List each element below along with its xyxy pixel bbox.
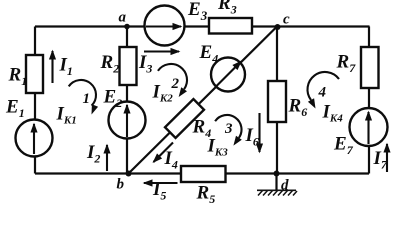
resistor R6 [268, 81, 286, 122]
wire left branch [34, 27, 36, 174]
label E4 [199, 42, 219, 66]
current arrow I4 [154, 143, 178, 172]
svg-text:E1: E1 [5, 97, 25, 121]
loop current IK2 [152, 64, 188, 105]
svg-text:R7: R7 [336, 52, 357, 76]
label R6 [288, 96, 308, 120]
resistor R2 [120, 47, 137, 85]
svg-text:IK2: IK2 [152, 82, 174, 105]
svg-text:R5: R5 [196, 183, 216, 205]
current arrow I1 [53, 51, 73, 83]
node b [117, 171, 132, 193]
loop current IK1 [56, 80, 99, 127]
svg-text:3: 3 [224, 121, 233, 137]
svg-text:IK4: IK4 [322, 102, 344, 125]
node a [119, 10, 130, 30]
label R2 [100, 52, 120, 76]
node d [274, 171, 290, 194]
wire middle branch a-b [126, 27, 128, 175]
svg-text:E4: E4 [199, 42, 219, 66]
wire c-d branch [276, 27, 278, 174]
wire diagonal b-c [128, 27, 277, 175]
svg-text:R1: R1 [8, 65, 28, 89]
wire ground stub [275, 174, 277, 190]
resistor R1 [26, 55, 43, 93]
svg-text:E3: E3 [187, 0, 208, 23]
label E3 [187, 0, 208, 23]
resistor R7 [361, 47, 379, 88]
svg-text:a: a [119, 10, 127, 26]
current arrow I7 [373, 144, 388, 172]
svg-text:R2: R2 [100, 52, 120, 76]
svg-text:I7: I7 [373, 148, 388, 172]
svg-text:R6: R6 [288, 96, 308, 120]
loop current IK4 [308, 72, 344, 125]
svg-text:1: 1 [83, 91, 91, 107]
node c [275, 12, 291, 31]
wire bottom b-d [35, 172, 369, 174]
EMF source E7 [350, 108, 388, 146]
EMF source E2 [109, 102, 146, 139]
current arrow I5 [144, 179, 178, 203]
resistor R3 [209, 18, 252, 34]
label R5 [196, 183, 216, 207]
resistor R4 [165, 99, 204, 138]
label E2 [103, 87, 123, 111]
svg-text:I1: I1 [59, 55, 73, 79]
current arrow I2 [86, 142, 107, 171]
EMF source E4 [211, 58, 245, 92]
svg-text:c: c [283, 12, 290, 28]
svg-text:b: b [117, 177, 125, 193]
svg-text:4: 4 [318, 85, 327, 101]
EMF source E1 [16, 120, 53, 157]
svg-text:I4: I4 [164, 148, 178, 172]
label R4 [192, 117, 212, 141]
svg-text:I2: I2 [86, 142, 100, 166]
label R3 [217, 0, 237, 17]
svg-text:R4: R4 [192, 117, 212, 141]
ground [257, 190, 297, 196]
svg-text:I3: I3 [138, 52, 152, 76]
current arrow I3 [138, 52, 179, 76]
svg-text:R3: R3 [217, 0, 237, 17]
svg-text:IK1: IK1 [56, 104, 77, 127]
EMF source E3 [145, 6, 185, 46]
svg-text:2: 2 [171, 76, 180, 92]
current arrow I6 [245, 113, 260, 152]
wire right branch [368, 27, 370, 174]
svg-text:I6: I6 [245, 125, 259, 149]
resistor R5 [181, 166, 226, 182]
label R1 [8, 65, 28, 89]
wire top a-c [35, 25, 370, 27]
label E7 [333, 134, 354, 158]
label E1 [5, 97, 25, 121]
loop current IK3 [207, 115, 242, 159]
label R7 [336, 52, 357, 76]
svg-text:E2: E2 [103, 87, 123, 111]
svg-text:E7: E7 [333, 134, 354, 158]
